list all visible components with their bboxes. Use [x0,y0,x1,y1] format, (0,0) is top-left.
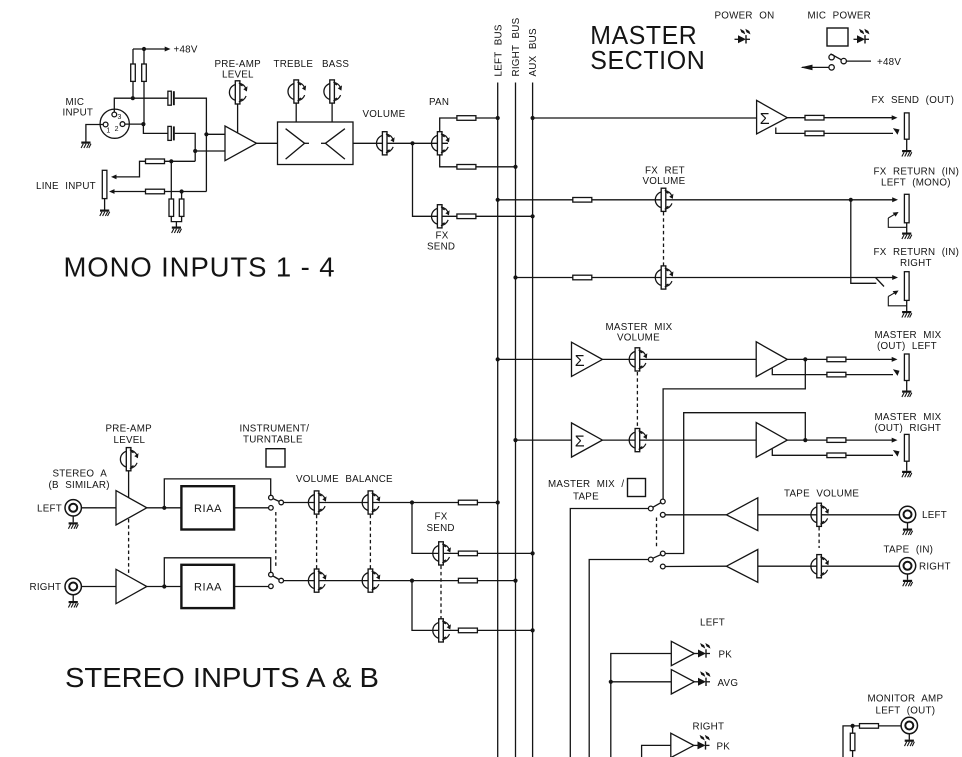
ground monitor out [905,740,915,747]
wire lower amp input [195,150,225,152]
wire tape left to jack [758,514,899,516]
wire tape amp right to switch [665,565,726,567]
ground mic input [81,142,91,149]
op-amp meter left pk [671,641,694,665]
gang dashed link fx ret [663,212,665,268]
potentiometer stereo balance right [362,569,380,592]
svg-text:+48V: +48V [174,45,198,56]
junction dot avg branch [609,680,613,684]
wire pan left leg [440,118,458,132]
svg-text:TAPE (IN): TAPE (IN) [884,545,934,556]
wire jack to ground [907,523,909,529]
wire bypass path right [164,558,270,587]
LED PK right [694,735,710,750]
potentiometer pan [432,132,450,155]
potentiometer stereo fx send A [433,542,451,565]
resistor R shunt right [179,199,184,216]
junction dot bypass split left [162,506,166,510]
wire to pan pot [413,142,449,144]
wire meter left feed [611,654,672,757]
wire to resistor [805,439,827,441]
capacitor C2 [168,126,175,140]
LED power on [735,29,751,44]
block RIAA left [181,486,234,529]
wire monitor tap right [666,413,806,554]
wire to left bus [476,117,498,119]
wire to aux bus [477,629,532,631]
wire jack to ground [906,381,908,391]
gang dashed link volume [316,515,318,570]
wire bass to EQ box [331,103,333,122]
junction dot on aux bus [531,116,535,120]
wire jack sleeve to ground [104,199,106,210]
svg-text:MIC POWER: MIC POWER [808,11,871,22]
wire pin1 to ground [86,125,103,142]
svg-text:RIAA: RIAA [194,503,222,515]
svg-text:PRE-AMP: PRE-AMP [106,424,153,435]
gang dashed link tape volume [818,527,820,548]
wire jack to amp [82,586,116,588]
gang dashed link monitor switch [656,518,658,550]
svg-text:FX: FX [435,512,448,523]
svg-text:FX RETURN (IN): FX RETURN (IN) [874,247,960,258]
switch riaa bypass left [269,495,284,510]
junction dot on right bus [513,275,517,279]
wire meter right feed [642,745,671,757]
resistor R line lower [146,189,165,194]
wire +48V feed arrow [133,47,171,52]
junction dot channel split [410,141,414,145]
resistor fx out sleeve [805,131,824,136]
connector monitor out left RCA [901,717,917,733]
wire jack to ground [906,300,908,311]
wire normalling left to right [851,200,877,283]
wire sigma to master amp right [602,439,756,441]
svg-text:SEND: SEND [427,242,455,253]
wire right bus to sigma right [516,439,572,441]
switch box master/tape [628,479,646,497]
junction dot master left out [803,357,807,361]
svg-text:FX RET: FX RET [645,166,685,177]
svg-text:RIGHT: RIGHT [900,258,932,269]
svg-text:MASTER MIX: MASTER MIX [875,412,942,423]
svg-text:VOLUME: VOLUME [643,176,686,187]
resistor master left sleeve [827,372,846,377]
potentiometer stereo pre-amp level [120,448,138,471]
ground master out left [902,391,912,398]
potentiometer pre-amp level [229,81,247,104]
svg-text:2: 2 [115,126,119,133]
op-amp tape play right [726,550,757,583]
svg-text:BASS: BASS [322,59,349,70]
LED AVG left [695,671,711,686]
resistor fx send [457,214,476,219]
svg-text:STEREO INPUTS A & B: STEREO INPUTS A & B [65,662,379,693]
svg-text:LEFT (MONO): LEFT (MONO) [881,178,951,189]
svg-text:LEFT (OUT): LEFT (OUT) [876,706,936,717]
wire pin3 up to cap C1 rail [114,98,168,112]
junction dot bypass split right [162,584,166,588]
wire pot to amp [237,104,239,134]
junction dot on right bus [513,165,517,169]
svg-text:1: 1 [106,127,110,134]
switch contact fx return left [888,212,906,227]
op-amp meter left avg [671,670,694,694]
wire jack to ground [72,516,74,522]
junction dot master right out [803,438,807,442]
connector XLR mic input [100,109,129,138]
wire sigma out [787,117,806,119]
potentiometer treble [288,80,306,103]
wire sleeve branch right out [772,449,827,455]
resistor R phantom left [131,64,136,81]
potentiometer master mix volume left [629,348,647,371]
wire pot to stereo amp left [128,471,130,498]
svg-text:PK: PK [719,650,733,661]
switch riaa bypass right [269,572,284,588]
wire to aux bus [476,215,533,217]
junction dot on left bus [496,116,500,120]
svg-text:LEFT: LEFT [700,618,725,629]
op-amp fx send summing [757,100,788,133]
wire R7 leads [170,161,172,199]
svg-text:LEFT BUS: LEFT BUS [493,24,504,76]
LED PK left [695,643,711,658]
wire sleeve branch left out [772,368,827,374]
resistor stereo right to bus [458,578,477,583]
wire arrow sleeve right [846,450,900,457]
switch box instrument/turntable [266,449,285,467]
junction dot on aux bus [531,628,535,632]
junction dot on right bus [513,438,517,442]
wire amp out right [787,439,805,441]
op-amp stereo right [116,569,147,603]
wire aux bus to summing amp [533,117,757,119]
connector master out right jack [904,434,909,461]
svg-text:MONO INPUTS 1 - 4: MONO INPUTS 1 - 4 [64,252,335,283]
svg-text:RIGHT: RIGHT [30,582,62,593]
wire amp out left [787,358,805,360]
resistor fx ret right [573,275,592,280]
svg-text:3: 3 [118,114,122,121]
potentiometer bass [324,80,342,103]
net AUX BUS [528,28,539,757]
wire jack to ground [906,461,908,471]
wire amp out to switch [147,586,269,588]
wire monitor amp left feed [843,726,860,757]
wire switch common to bus left [284,502,498,504]
svg-text:LEFT: LEFT [922,510,947,521]
svg-text:(OUT) LEFT: (OUT) LEFT [877,341,937,352]
op-amp stereo left [116,491,147,525]
op-amp meter right pk [671,733,694,757]
resistor stereo fx B [458,628,477,633]
svg-text:VOLUME: VOLUME [363,109,406,120]
resistor monitor shunt [850,726,855,757]
svg-text:INPUT: INPUT [63,108,94,119]
ground fx return right [902,311,912,318]
wire jack to ground [72,595,74,601]
resistor R shunt left [169,199,174,216]
wire jack to ground [907,574,909,580]
wire fx out sleeve branch [776,128,806,134]
svg-text:TURNTABLE: TURNTABLE [243,435,303,446]
op-amp tape play left [726,498,757,531]
junction dot pin2/R2 [141,122,145,126]
potentiometer tape volume left [811,503,829,526]
wire jack to ground [906,139,908,150]
switch monitor source right [648,551,665,569]
ground tape in left [903,529,913,536]
net RIGHT BUS [511,17,522,757]
connector fx return left jack [904,194,909,223]
gang dashed link stereo preamp [128,519,130,575]
wire to resistor [805,358,827,360]
junction dot on aux bus [531,214,535,218]
wire to stereo fx pot A [412,503,458,554]
wire arrow sleeve left [846,369,900,376]
wire R2 to pin2 rail [143,81,145,124]
potentiometer volume [377,132,395,155]
svg-text:FX SEND (OUT): FX SEND (OUT) [872,95,955,106]
wire R1 to pin3 rail [132,81,134,98]
potentiometer tape volume right [811,555,829,578]
svg-text:AVG: AVG [718,678,739,689]
potentiometer fx send [432,205,450,228]
wire arrow into right return jack [877,275,898,280]
ground fx send jack [902,150,912,157]
wire switch common to bus right [284,580,516,582]
svg-text:LEVEL: LEVEL [114,435,146,446]
resistor master right sleeve [827,453,846,458]
wire ground stem [175,222,177,227]
block RIAA right [181,565,234,608]
connector fx send jack [904,113,909,139]
svg-text:POWER ON: POWER ON [715,11,775,22]
switch blade normalling [876,278,885,287]
svg-text:TAPE VOLUME: TAPE VOLUME [784,489,859,500]
gang dashed link riaa switch [275,512,277,568]
net LEFT BUS [493,24,504,757]
svg-text:MASTER MIX: MASTER MIX [875,330,942,341]
wire switch to +48V label [847,60,871,62]
junction dot node A upper amp input [204,132,208,136]
svg-text:INSTRUMENT/: INSTRUMENT/ [240,423,310,434]
junction dot on left bus [496,198,500,202]
op-amp master out right [756,423,787,458]
LED mic power [854,29,870,44]
svg-text:SECTION: SECTION [590,45,705,75]
op-amp master sum left [572,342,603,376]
gang dashed link master volume [636,372,638,428]
resistor R line upper [146,159,165,164]
svg-text:Σ: Σ [760,111,770,128]
potentiometer master mix volume right [629,429,647,452]
svg-text:LEFT: LEFT [37,503,62,514]
wire jack to amp [82,507,116,509]
svg-text:(B SIMILAR): (B SIMILAR) [49,480,110,491]
resistor fx ret left [573,198,592,203]
wire amp out to switch [147,507,269,509]
svg-text:LEVEL: LEVEL [222,70,254,81]
op-amp master sum right [572,423,603,457]
junction dot node B lower amp input [193,149,197,153]
svg-text:AUX BUS: AUX BUS [528,28,539,76]
resistor R phantom right [142,64,147,81]
svg-text:RIGHT: RIGHT [693,722,725,733]
capacitor C1 [168,91,175,105]
junction dot monitor out [851,724,855,728]
ground stereo left in [68,522,78,529]
wire bypass path left [164,479,270,508]
junction dot on right bus [513,579,517,583]
svg-text:RIGHT: RIGHT [919,562,951,573]
wire phantom feed arrow [801,65,829,71]
wire sigma to master amp left [602,358,756,360]
wire left bus to sigma left [498,358,572,360]
wire tape right to jack [758,565,899,567]
resistor master right tip [827,438,846,443]
wire upper amp input [206,133,225,135]
ground fx return left [902,233,912,240]
wire down to C2 [143,124,168,133]
ground stereo right in [68,601,78,608]
svg-text:RIGHT BUS: RIGHT BUS [511,17,522,76]
resistor fx out tip [805,115,824,120]
svg-text:MIC: MIC [66,97,85,108]
potentiometer stereo volume right [308,569,326,592]
wire to monitor jack [879,725,902,727]
ground tape in right [903,580,913,587]
wire arrow into right out jack [846,438,898,443]
wire R6 to node A [165,191,207,193]
wire switch common right down [589,560,648,757]
switch monitor source left [648,499,665,517]
EQ block U2 [278,122,354,165]
resistor monitor series [860,724,879,729]
junction dot on aux bus [531,551,535,555]
svg-text:+48V: +48V [877,57,901,68]
wire avg feed [611,681,672,683]
svg-text:MASTER MIX: MASTER MIX [606,322,673,333]
potentiometer fx ret volume right [655,266,673,289]
wire volume to fx send pot [413,143,458,216]
connector line input jack [102,170,107,198]
gang dashed link balance [369,515,371,570]
svg-text:VOLUME BALANCE: VOLUME BALANCE [296,474,393,485]
wire line input ring contact [109,189,146,194]
wire left bus to fx return left [498,199,851,201]
svg-text:PAN: PAN [429,97,449,108]
op-amp mic pre-amp [225,126,257,161]
wire to R2 [143,49,145,64]
ground line termination [172,227,182,234]
wire to aux bus [477,552,532,554]
svg-text:PRE-AMP: PRE-AMP [215,59,262,70]
junction dot on left bus [496,357,500,361]
wire C2 to node B [175,133,196,161]
wire jack to ground [906,223,908,233]
junction dot +48V rail [142,47,146,51]
resistor pan right [457,165,476,170]
svg-text:FX RETURN (IN): FX RETURN (IN) [874,167,960,178]
wire switch common left down [570,509,648,757]
ground master out right [902,471,912,478]
svg-text:LINE INPUT: LINE INPUT [36,181,96,192]
resistor stereo left to bus [458,500,477,505]
resistor master left tip [827,357,846,362]
wire to fx send jack [824,115,898,120]
connector tape in left RCA [899,506,915,522]
op-amp master out left [756,342,787,377]
wire pin2 to C2 [125,123,143,125]
svg-text:TAPE: TAPE [573,492,599,503]
wire tape amp left to switch [665,514,726,516]
wire amp out to EQ [257,142,278,144]
svg-text:Σ: Σ [575,434,585,451]
switch box mic power [827,28,848,46]
wire to right bus [476,166,516,168]
svg-text:(OUT) RIGHT: (OUT) RIGHT [875,423,942,434]
wire to jack sleeve arrow [824,128,900,135]
connector stereo right RCA [65,578,81,594]
gang dashed link stereo fx [440,566,442,619]
wire EQ to volume pot [353,142,413,144]
junction dot stereo fx split left [410,500,414,504]
wire R8 leads [181,192,183,200]
wire R5 to node B [165,160,196,162]
wire arrow into left return jack [851,197,898,202]
potentiometer stereo balance left [362,491,380,514]
wire jack to ground [908,734,910,740]
wire line input tip contact [111,161,146,179]
potentiometer stereo fx send B [433,619,451,642]
potentiometer stereo volume left [308,491,326,514]
svg-text:MASTER MIX /: MASTER MIX / [548,479,624,490]
wire arrow into left out jack [846,357,898,362]
connector fx return right jack [904,272,909,301]
junction dot on left bus [496,500,500,504]
junction dot normalling tap [849,198,853,202]
switch phantom power [829,54,847,70]
svg-text:FX: FX [436,231,449,242]
svg-text:PK: PK [717,742,731,753]
connector master out left jack [904,354,909,381]
wire to stereo fx pot B [412,581,458,631]
svg-text:MONITOR AMP: MONITOR AMP [868,694,944,705]
junction dot stereo fx split right [410,579,414,583]
svg-text:TREBLE: TREBLE [274,59,314,70]
junction dot R7 tap [169,159,173,163]
svg-text:Σ: Σ [575,353,585,370]
resistor pan left [457,116,476,121]
potentiometer fx ret volume left [655,188,673,211]
switch contact fx return right [888,291,906,306]
junction dot pin3/R1 [131,96,135,100]
wire shunt join to ground [171,216,181,221]
svg-text:SEND: SEND [427,523,455,534]
ground line input [100,210,110,217]
svg-text:STEREO A: STEREO A [53,469,108,480]
wire C1 to node A [175,98,207,191]
wire treble to EQ box [295,103,297,122]
resistor stereo fx A [458,551,477,556]
junction dot R8 tap [180,189,184,193]
wire pan right leg [440,155,458,167]
svg-text:VOLUME: VOLUME [617,333,660,344]
wire monitor tap left [663,359,805,499]
wire right bus to fx return right [516,277,878,279]
